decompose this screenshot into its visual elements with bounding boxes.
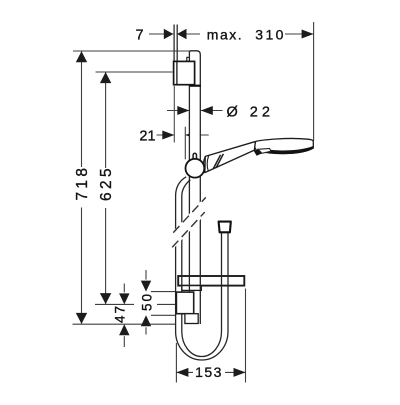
handle (hand shower grip) [205, 142, 256, 173]
svg-text:47: 47 [113, 304, 128, 323]
dimension 50 [140, 270, 177, 335]
dimension max. 310 [207, 22, 314, 141]
break mark band [172, 196, 206, 249]
hose inner line [182, 180, 222, 357]
dimension 7 (wall clearance) [135, 28, 200, 44]
wall line below bracket [173, 86, 175, 143]
holder knob [186, 159, 205, 178]
dimension diameter 22 (rail) [167, 104, 274, 120]
svg-text:718: 718 [74, 165, 91, 201]
wall bracket (top) [174, 57, 201, 85]
rail fill [190, 51, 200, 323]
svg-text:21: 21 [139, 129, 155, 145]
shelf (soap dish) [178, 276, 244, 286]
slider clamp tab [185, 314, 198, 324]
spray face (dark band) [266, 147, 313, 154]
dimension 718 (total height) [73, 51, 190, 324]
svg-text:153: 153 [195, 364, 223, 380]
shelf lower ledge [182, 286, 201, 291]
holder stub [193, 153, 196, 160]
svg-text:50: 50 [140, 292, 155, 311]
pivot wedge [254, 149, 262, 155]
svg-text:310: 310 [255, 27, 286, 43]
hose outer line [176, 177, 228, 360]
svg-text:max.: max. [207, 27, 243, 43]
hose body fill [176, 177, 228, 360]
svg-text:7: 7 [135, 28, 143, 44]
svg-text:625: 625 [98, 165, 115, 201]
wall line stub above break [176, 191, 178, 209]
wall line pair (7mm profile) [174, 25, 177, 62]
rail outline [189, 51, 200, 324]
svg-text:Ø 22: Ø 22 [227, 104, 274, 120]
dimension 153 (hose loop width) [176, 289, 245, 383]
pivot joint (white quad) [258, 148, 271, 153]
dimension 21 [139, 127, 208, 160]
dimension 625 [95, 72, 176, 304]
slider bracket [176, 292, 193, 314]
hose end fitting (cap) [219, 222, 231, 233]
shower head body [254, 138, 313, 153]
dimension 47 [113, 284, 130, 348]
